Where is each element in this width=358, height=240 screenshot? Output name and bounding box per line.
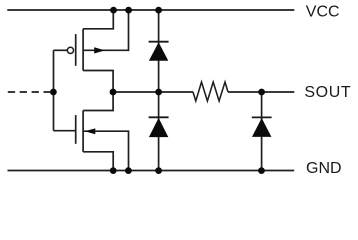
svg-text:GND: GND [306,160,342,177]
svg-text:VCC: VCC [306,3,340,20]
svg-text:SOUT: SOUT [304,84,351,101]
